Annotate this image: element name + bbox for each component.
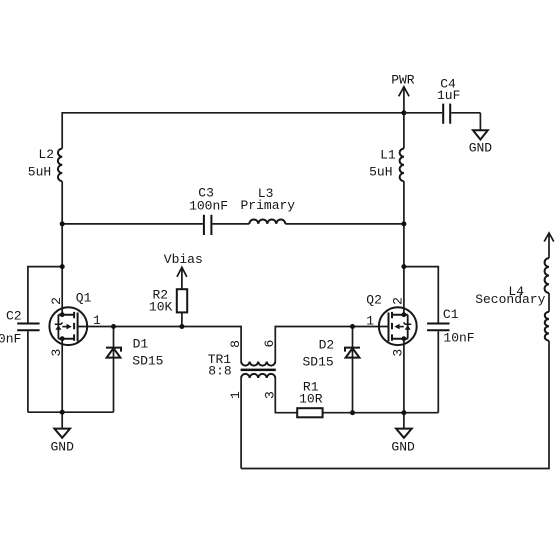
transistor Q2	[379, 307, 417, 345]
junction dot gnd right	[401, 410, 406, 415]
node secondary arrow	[544, 233, 554, 258]
capacitor C2	[17, 324, 39, 331]
diode D1	[113, 327, 115, 413]
inductor L4	[545, 312, 549, 341]
wire C2 branch	[28, 267, 62, 413]
node PWR	[399, 87, 409, 113]
junction dot rail2 left	[60, 221, 65, 226]
wire top rail	[62, 112, 404, 114]
svg-text:L2: L2	[38, 147, 54, 162]
junction dot gnd left	[60, 410, 65, 415]
junction dot PWR/C4	[401, 110, 406, 115]
transistor Q1	[49, 307, 87, 345]
wire C1 branch	[404, 267, 438, 413]
resistor R1	[297, 408, 322, 417]
junction dot rail2 right	[401, 221, 406, 226]
wire bottom left rail	[28, 411, 114, 413]
svg-text:2: 2	[49, 297, 64, 305]
svg-text:Primary: Primary	[240, 198, 295, 213]
wire bottom right rail	[323, 412, 439, 414]
svg-text:L1: L1	[380, 147, 396, 162]
junction dot C1 branch	[401, 264, 406, 269]
svg-text:2: 2	[390, 297, 405, 305]
wire Q2 source lower	[403, 339, 405, 413]
inductor L2	[58, 149, 62, 182]
wire TR1 pin1	[240, 378, 242, 469]
svg-text:PWR: PWR	[391, 73, 415, 88]
svg-text:SD15: SD15	[302, 354, 333, 369]
svg-text:5uH: 5uH	[28, 164, 51, 179]
svg-text:D2: D2	[319, 338, 335, 353]
transformer TR1	[241, 362, 276, 378]
capacitor C1	[427, 324, 449, 331]
svg-text:C1: C1	[443, 307, 459, 322]
node Vbias	[177, 267, 187, 289]
svg-text:10nF: 10nF	[0, 332, 21, 347]
junction dot C2 branch	[60, 264, 65, 269]
capacitor C3	[204, 215, 212, 235]
svg-text:6: 6	[262, 340, 277, 348]
svg-text:SD15: SD15	[132, 354, 163, 369]
svg-text:100nF: 100nF	[189, 199, 228, 214]
svg-text:5uH: 5uH	[369, 165, 392, 180]
inductor L3	[249, 219, 285, 223]
junction dot R2	[179, 324, 184, 329]
resistor R2	[181, 312, 183, 326]
wire left vertical upper	[61, 112, 63, 315]
svg-text:Q1: Q1	[76, 291, 92, 306]
inductor L1	[400, 149, 404, 182]
ground left	[61, 412, 63, 428]
svg-text:1uF: 1uF	[437, 88, 460, 103]
svg-text:GND: GND	[50, 440, 74, 455]
wire Q1 gate	[78, 327, 242, 362]
diode D2	[352, 327, 354, 413]
svg-text:Vbias: Vbias	[164, 252, 203, 267]
svg-text:8: 8	[228, 340, 243, 348]
svg-text:GND: GND	[469, 141, 493, 156]
svg-text:GND: GND	[391, 439, 415, 454]
wire TR1 pin3	[275, 378, 297, 413]
wire Q2 gate	[275, 327, 388, 362]
svg-text:10K: 10K	[149, 300, 173, 315]
svg-text:10R: 10R	[299, 392, 323, 407]
svg-text:8:8: 8:8	[208, 364, 231, 379]
wire mid rail	[62, 223, 404, 225]
svg-text:10nF: 10nF	[443, 331, 474, 346]
wire right vertical upper	[403, 112, 405, 315]
svg-text:C2: C2	[6, 309, 22, 324]
wire Q1 source lower	[61, 339, 63, 413]
capacitor C4	[404, 113, 481, 130]
wire bottom loop	[241, 341, 549, 469]
ground right	[403, 413, 405, 428]
ground top right	[473, 130, 488, 139]
svg-text:D1: D1	[133, 336, 149, 351]
svg-text:Secondary: Secondary	[475, 292, 545, 307]
svg-text:Q2: Q2	[366, 293, 382, 308]
